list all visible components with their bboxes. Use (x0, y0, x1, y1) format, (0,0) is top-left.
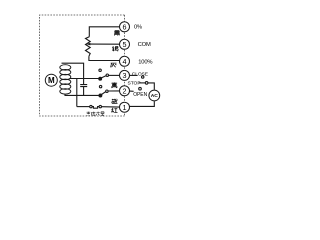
wire color label red (111, 108, 117, 113)
svg-text:3: 3 (123, 71, 127, 80)
enclosure dashed border (40, 15, 125, 116)
pot wiper arrow to terminal 5 (90, 43, 120, 45)
AC source (149, 90, 160, 101)
wire color label gray (111, 63, 117, 67)
terminal 1 (120, 102, 130, 112)
label 热保护器 (87, 112, 105, 116)
svg-text:OPEN: OPEN (133, 92, 147, 98)
wire terminal 2 to OPEN button (130, 90, 134, 92)
STOP button contact and wire to AC line (139, 82, 155, 90)
OPEN button contact (139, 87, 142, 90)
terminal 5 (120, 39, 130, 49)
wire S1 to terminal 3 (109, 74, 120, 76)
wire AC bottom to terminal 1 (129, 101, 154, 106)
wire capacitor bottom lead (83, 87, 85, 96)
wire pot bottom to terminal 4 (89, 56, 120, 60)
wire color label black (114, 31, 120, 36)
terminal dashed line (124, 15, 126, 116)
wire coil top to capacitor branch (62, 63, 84, 84)
svg-text:4: 4 (123, 57, 127, 66)
motor winding coil (60, 65, 71, 94)
potentiometer R1 (86, 27, 120, 61)
wire color label silver (112, 46, 118, 51)
svg-text:1: 1 (123, 103, 127, 112)
wire coil bottom (65, 94, 99, 95)
svg-text:5: 5 (123, 40, 127, 49)
motor M (45, 74, 57, 86)
wire color label blue (112, 99, 118, 104)
svg-text:STOP: STOP (128, 81, 141, 87)
svg-text:100%: 100% (138, 59, 152, 65)
svg-text:M: M (48, 76, 55, 85)
wire S2 to terminal 2 (108, 90, 119, 92)
wire coil center tap (70, 78, 99, 80)
svg-text:6: 6 (123, 22, 127, 31)
terminal 4 (120, 56, 130, 66)
wire color label yellow (111, 82, 117, 88)
cam switch S2 (open) (99, 85, 120, 97)
terminal 2 (120, 86, 130, 96)
wire pot top to terminal 6 (89, 27, 119, 37)
svg-text:AC: AC (151, 93, 159, 99)
CLOSE button contact (142, 76, 144, 78)
wire common branch down (76, 79, 78, 107)
terminal 3 (120, 70, 130, 80)
cam switch S1 (close) (99, 69, 120, 80)
terminal 6 (120, 22, 130, 32)
svg-text:0%: 0% (134, 24, 142, 30)
capacitor C plates (80, 85, 87, 87)
wire terminal 3 to CLOSE button (130, 74, 138, 76)
svg-text:COM: COM (138, 42, 151, 48)
svg-text:CLOSE: CLOSE (132, 71, 149, 77)
thermal protector (77, 105, 120, 108)
svg-text:2: 2 (123, 86, 127, 95)
